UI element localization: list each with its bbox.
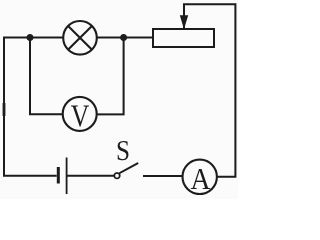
svg-text:S: S xyxy=(116,135,130,167)
svg-text:V: V xyxy=(71,97,90,133)
svg-text:A: A xyxy=(191,161,212,196)
